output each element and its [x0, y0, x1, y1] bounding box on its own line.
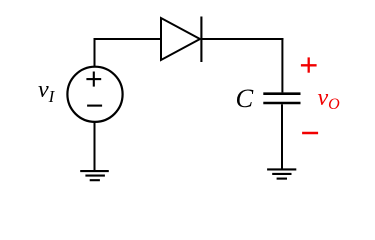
wire: corner down to capacitor: [281, 38, 283, 92]
minus sign inside source: [87, 105, 102, 107]
capacitor C top plate: [263, 92, 300, 95]
diode cathode bar: [200, 17, 202, 63]
label vI: [38, 77, 54, 107]
wire: source bottom to ground: [94, 122, 96, 171]
wire: top horizontal to diode anode: [94, 38, 162, 40]
wire: capacitor to ground: [281, 104, 283, 169]
ground (left): [80, 171, 109, 180]
wire: source top to corner: [94, 39, 96, 67]
ground (right): [267, 169, 296, 178]
label C: [236, 83, 254, 114]
label vO: [318, 85, 340, 114]
red plus (output polarity): [301, 57, 317, 72]
diode D triangle: [161, 18, 200, 60]
plus sign inside source: [86, 72, 101, 87]
capacitor C bottom plate: [263, 102, 300, 105]
voltage source VI circle: [67, 67, 122, 122]
red minus (output polarity): [302, 132, 318, 135]
wire: diode cathode to corner: [201, 38, 283, 40]
